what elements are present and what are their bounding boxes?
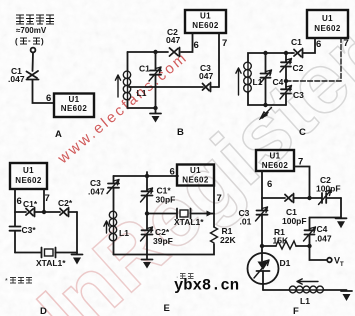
inductor L1 region B (123, 71, 130, 100)
svg-text:L1: L1 (119, 228, 129, 238)
svg-text:*: * (5, 278, 8, 285)
svg-text:C2: C2 (293, 63, 304, 73)
svg-text:U1: U1 (322, 14, 333, 23)
svg-text:XTAL1*: XTAL1* (174, 217, 204, 227)
wire tank top (248, 53, 292, 62)
wire (324, 289, 347, 291)
wire pin6 (15, 189, 26, 212)
wire (128, 100, 156, 108)
wire pin7 (218, 33, 220, 87)
capacitor C4 variable region C (260, 53, 272, 105)
capacitor C2 variable region F (310, 190, 342, 205)
svg-text:C1: C1 (291, 37, 302, 47)
svg-text:6: 6 (17, 196, 22, 207)
note see text region D (5, 278, 32, 286)
svg-text:C1: C1 (139, 64, 150, 74)
svg-text:C1*: C1* (23, 199, 38, 209)
svg-text:6: 6 (316, 39, 321, 50)
node junction F mid (307, 244, 311, 248)
svg-text:≈700mV: ≈700mV (16, 26, 47, 35)
inductor L1 region F (289, 286, 324, 293)
svg-text:ybx8.cn: ybx8.cn (174, 277, 239, 295)
capacitor C1 region C (292, 49, 303, 58)
node junction D (42, 210, 46, 214)
op-amp U1 NE602 region C (307, 10, 348, 38)
svg-text:6: 6 (170, 167, 175, 178)
svg-text:NE602: NE602 (314, 24, 341, 33)
node junction B bottom (153, 106, 157, 110)
svg-text:047: 047 (166, 35, 180, 45)
svg-text:A: A (55, 129, 62, 140)
wire pin6 (303, 38, 315, 53)
svg-text:6: 6 (194, 40, 199, 51)
node junction C bottom (263, 103, 267, 107)
capacitor C2* variable region E (141, 214, 153, 255)
crystal XTAL1* region D (42, 248, 78, 258)
svg-text:.01: .01 (240, 217, 252, 227)
wire right (76, 212, 78, 254)
svg-text:C2*: C2* (58, 198, 73, 208)
svg-text:T: T (340, 262, 344, 268)
capacitor C3 region F (256, 198, 268, 251)
wire pin7 (286, 38, 341, 81)
wire (128, 51, 169, 53)
svg-text:7: 7 (222, 38, 227, 49)
svg-text:L1: L1 (137, 88, 147, 98)
ground region D (72, 255, 83, 265)
svg-text:NE602: NE602 (15, 176, 42, 185)
svg-text:NE602: NE602 (182, 176, 209, 185)
note oscillator frequency CJK text (16, 15, 54, 24)
op-amp U1 NE602 region E (177, 165, 214, 186)
wire (33, 81, 55, 104)
svg-text:.047: .047 (8, 74, 25, 84)
svg-text:C4: C4 (273, 77, 284, 87)
wire crystal (147, 213, 177, 215)
node junction E mid (145, 211, 149, 215)
svg-text:U1: U1 (190, 166, 201, 175)
capacitor C1 variable region B (149, 52, 161, 108)
svg-text:100pF: 100pF (316, 184, 341, 194)
crystal XTAL1* region E (177, 209, 214, 219)
capacitor C1* region D (26, 208, 44, 217)
wire left tank (127, 52, 129, 71)
svg-text:D1: D1 (280, 258, 291, 268)
svg-text:U1: U1 (23, 166, 34, 175)
terminal VT (310, 246, 332, 262)
svg-text:-: - (28, 36, 31, 45)
svg-text:U1: U1 (200, 12, 211, 21)
arrow adjustable L1 C (236, 68, 241, 95)
svg-text:.047: .047 (88, 187, 105, 197)
capacitor C2 region B (170, 48, 180, 57)
svg-text:E: E (164, 303, 170, 314)
svg-text:100pF: 100pF (282, 216, 307, 226)
svg-text:L1: L1 (300, 296, 310, 306)
wire bottom (263, 289, 289, 291)
svg-text:NE602: NE602 (192, 21, 219, 30)
svg-text:B: B (177, 127, 184, 138)
svg-text:30pF: 30pF (156, 195, 176, 205)
op-amp U1 NE602 region F (256, 150, 294, 171)
svg-text:22K: 22K (220, 235, 236, 245)
arrow adjustable L1 E (104, 221, 109, 233)
ground chassis region C (261, 108, 272, 119)
svg-text:NE602: NE602 (262, 161, 289, 170)
wire pin7 (213, 186, 215, 228)
capacitor C1 region F (285, 194, 310, 203)
wire pin7 (43, 189, 45, 212)
ground region F bottom (341, 291, 352, 301)
svg-text:C3: C3 (293, 90, 304, 100)
svg-text:U1: U1 (269, 152, 280, 161)
terminal input A (31, 48, 36, 53)
wire tap (129, 86, 203, 88)
wire (248, 92, 286, 105)
svg-text:.047: .047 (315, 234, 332, 244)
svg-text:C: C (299, 127, 306, 138)
op-amp U1 NE602 region A (54, 94, 94, 118)
node junction E top (145, 174, 149, 178)
capacitor C1* variable region E (141, 172, 153, 214)
op-amp U1 NE602 region D (10, 163, 47, 189)
svg-text:C4: C4 (317, 224, 328, 234)
wire (113, 241, 115, 255)
wire pin6 (262, 171, 285, 198)
svg-text:): ) (41, 37, 44, 46)
wire top (114, 175, 179, 177)
capacitor C3 region C (280, 86, 292, 106)
capacitor C2 region C (280, 53, 292, 89)
node junction F top (307, 196, 311, 200)
note see text region E (176, 274, 194, 282)
arrow adjustable L1 B (115, 75, 120, 97)
ground region E (142, 255, 153, 269)
wire (340, 198, 342, 218)
wire ground line (310, 217, 342, 219)
op-amp U1 NE602 region B (185, 10, 226, 33)
ground region F right (336, 218, 347, 228)
svg-text:C3*: C3* (22, 225, 37, 235)
capacitor C3* region D (10, 212, 21, 253)
wire pin6 (181, 33, 193, 52)
wire pin7 (294, 167, 310, 199)
wire (44, 211, 60, 213)
wire (114, 244, 215, 255)
capacitor C4 region F (304, 218, 316, 247)
ground region B (150, 108, 161, 123)
svg-text:7: 7 (344, 38, 349, 49)
svg-text:6: 6 (267, 179, 272, 190)
inductor L1 region E (109, 211, 116, 241)
svg-text:D: D (40, 306, 47, 316)
capacitor C1 region A (27, 71, 39, 80)
node junction F left (260, 244, 264, 248)
capacitor C3 region E (107, 176, 119, 211)
varactor diode D1 region F (248, 251, 279, 290)
resistor R1 region E (211, 227, 218, 243)
svg-text:(: ( (15, 37, 18, 46)
svg-text:NE602: NE602 (61, 104, 88, 113)
svg-text:XTAL1*: XTAL1* (36, 258, 66, 268)
svg-text:39pF: 39pF (153, 236, 173, 246)
capacitor C3 region B (203, 83, 220, 92)
svg-text:15K: 15K (273, 236, 289, 246)
svg-text:U1: U1 (68, 95, 79, 104)
svg-text:F: F (293, 306, 299, 316)
inductor L1 region C (244, 62, 252, 94)
wire (32, 52, 35, 71)
svg-text:047: 047 (199, 71, 213, 81)
svg-text:7: 7 (217, 193, 222, 204)
node junction C top1 (263, 51, 267, 55)
svg-text:7: 7 (45, 193, 50, 204)
node junction C mid (284, 79, 288, 83)
arrow adjustable L1 F (297, 279, 318, 284)
svg-text:6: 6 (46, 93, 51, 104)
resistor R1 region F (262, 241, 310, 249)
capacitor C2* region D (60, 208, 77, 217)
node junction C top2 (284, 51, 288, 55)
node junction B top (153, 50, 157, 54)
wire bottom (15, 252, 41, 254)
note peak-peak CJK (15, 36, 44, 46)
